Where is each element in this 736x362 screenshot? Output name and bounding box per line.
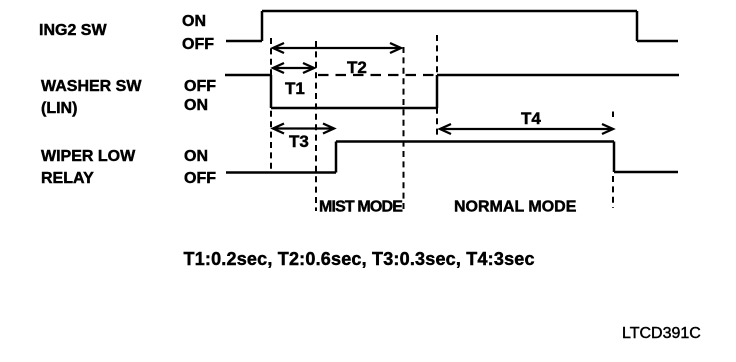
svg-text:T1:0.2sec, T2:0.6sec, T3:0.3se: T1:0.2sec, T2:0.6sec, T3:0.3sec, T4:3sec	[184, 249, 535, 269]
svg-text:WASHER SW: WASHER SW	[41, 78, 142, 95]
dimension arrow T3	[273, 124, 334, 134]
svg-text:ON: ON	[184, 97, 208, 114]
svg-text:ON: ON	[184, 148, 208, 165]
dashed guide line at T2 end x=403.5	[403, 47, 405, 212]
dashed guide line at wiper-off edge x=613	[612, 112, 614, 118]
svg-text:OFF: OFF	[184, 78, 216, 95]
wire WASHER OFF tail	[437, 74, 679, 77]
svg-text:T2: T2	[347, 58, 367, 77]
svg-text:RELAY: RELAY	[41, 170, 94, 187]
wire ING2 ON level	[262, 10, 637, 13]
svg-text:(LIN): (LIN)	[41, 100, 77, 117]
svg-text:OFF: OFF	[184, 170, 216, 187]
dashed guide line at washer-on edge x=271	[270, 38, 272, 172]
svg-text:LTCD391C: LTCD391C	[622, 325, 701, 342]
wire ING2 fall edge	[636, 11, 639, 41]
wire WIPER fall edge	[613, 142, 616, 173]
dashed guide line at washer-off edge x=437	[436, 35, 438, 135]
wire ING2 OFF lead	[226, 40, 262, 43]
wire WASHER OFF dashed continuation	[318, 74, 437, 76]
wire WIPER ON level	[336, 140, 614, 143]
wire WASHER fall edge	[270, 75, 273, 108]
wire WIPER OFF lead	[226, 171, 336, 174]
dimension arrow T2	[273, 43, 401, 53]
svg-text:ING2 SW: ING2 SW	[39, 22, 107, 39]
wire ING2 OFF tail	[637, 40, 678, 43]
svg-text:NORMAL MODE: NORMAL MODE	[454, 199, 577, 216]
dimension arrow T1	[273, 63, 314, 73]
wire WASHER ON level	[271, 107, 437, 110]
dashed guide line at T1 end x=316	[315, 41, 317, 211]
svg-text:ON: ON	[182, 13, 206, 30]
svg-text:OFF: OFF	[182, 36, 214, 53]
svg-text:MIST MODE: MIST MODE	[319, 199, 403, 216]
wire ING2 rise edge	[261, 11, 264, 41]
wire WASHER OFF lead	[225, 74, 271, 77]
wire WIPER OFF tail	[614, 171, 678, 174]
svg-text:T1: T1	[285, 79, 305, 98]
wire WASHER rise edge	[436, 75, 439, 108]
dimension arrow T4	[440, 124, 613, 134]
svg-text:T4: T4	[521, 109, 541, 128]
svg-text:WIPER LOW: WIPER LOW	[41, 148, 136, 165]
wire WIPER rise edge	[335, 142, 338, 173]
svg-text:T3: T3	[289, 132, 309, 151]
